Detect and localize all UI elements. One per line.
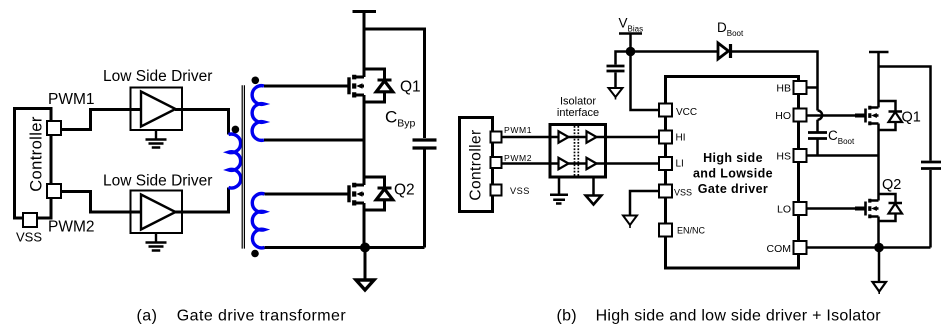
V_Bias rail bar: [619, 32, 642, 35]
svg-text:interface: interface: [557, 107, 599, 119]
wire HS to switch node: [807, 154, 879, 157]
svg-text:Q1: Q1: [902, 110, 921, 126]
junction dot (b): [874, 243, 884, 253]
svg-text:EN/NC: EN/NC: [677, 226, 706, 236]
svg-text:VSS: VSS: [16, 230, 42, 245]
svg-text:High side: High side: [703, 151, 763, 165]
wire secondary-bottom to Q2 gate: [265, 193, 348, 196]
ground driver 1 (earth): [146, 131, 167, 148]
output capacitor: [921, 162, 941, 169]
wire C_Boot to HS wire: [816, 140, 819, 156]
svg-text:PWM1: PWM1: [48, 91, 95, 108]
transformer T1 secondary top dot: [252, 77, 260, 85]
wire secondary-top bottom to switch node: [264, 139, 364, 142]
pin PWM2 (b): [491, 157, 502, 168]
svg-text:HI: HI: [676, 133, 686, 144]
low side driver 2 box: [131, 191, 183, 234]
wire isolator to HI: [607, 136, 660, 139]
svg-text:Isolator: Isolator: [560, 96, 596, 108]
svg-text:COM: COM: [767, 243, 792, 255]
transformer T1 primary winding: [229, 134, 241, 188]
capacitor C_Byp: [413, 140, 437, 248]
svg-text:Low Side Driver: Low Side Driver: [103, 173, 212, 190]
gate driver IC box: [666, 77, 799, 269]
pin EN/NC: [659, 224, 672, 237]
wire rail branch to output cap: [879, 67, 931, 161]
svg-text:Low Side Driver: Low Side Driver: [103, 68, 212, 85]
wire rail to Q1 drain (b): [877, 52, 880, 108]
wire Q2 source to COM node: [877, 217, 880, 248]
junction dot (a): [360, 243, 370, 253]
transformer T1 primary dot: [232, 126, 240, 134]
svg-text:HO: HO: [775, 110, 791, 122]
pin VSS (b): [491, 185, 502, 196]
wire HO to Q1 gate: [807, 114, 857, 117]
power rail bar (a): [353, 10, 377, 13]
junction dot V_Bias: [626, 47, 636, 57]
svg-text:PWM2: PWM2: [48, 219, 95, 236]
ground (a): [364, 248, 367, 281]
wire output cap to COM rail: [929, 170, 932, 248]
svg-text:Gate driver: Gate driver: [698, 182, 768, 196]
pin HO: [794, 109, 807, 122]
controller U_b box: [460, 118, 493, 212]
wire to bias cap: [616, 52, 631, 65]
ground (b): [878, 248, 881, 283]
low side driver 2 buffer triangle: [141, 195, 176, 230]
wire Q2 source to rail: [363, 203, 366, 248]
wire driver1 out to transformer primary top: [175, 110, 229, 135]
isolator ground right (arrow): [592, 177, 595, 195]
wire VSS (IC) to ground: [630, 191, 659, 215]
pin LO: [794, 202, 807, 215]
wire COM to node: [807, 246, 931, 249]
transistor Q1 (b): [866, 106, 879, 125]
wire LO to Q2 gate: [807, 207, 857, 210]
controller U_a box: [15, 109, 52, 219]
wire isolator to LI: [607, 162, 660, 165]
isolator ground left (earth): [550, 177, 568, 204]
svg-text:Controller: Controller: [28, 116, 46, 192]
pin VSS (IC): [659, 185, 672, 198]
isolator buffer triangles row 1: [550, 136, 607, 139]
svg-text:PWM1: PWM1: [504, 125, 532, 135]
wire V_Bias to VCC: [631, 52, 660, 111]
low side driver 1 box: [131, 88, 183, 131]
wire Q1 source to switch node (b): [877, 124, 880, 201]
svg-text:LI: LI: [676, 159, 684, 170]
wire HB pin: [807, 86, 818, 89]
svg-text:(a) Gate drive transformer: (a) Gate drive transformer: [137, 308, 347, 325]
transistor Q1 (a): [349, 75, 364, 98]
ground bias cap (arrow): [609, 88, 623, 97]
svg-text:Controller: Controller: [468, 129, 485, 200]
capacitor bias: [607, 66, 625, 71]
svg-text:and Lowside: and Lowside: [693, 167, 773, 181]
wire cap to ground: [614, 73, 617, 88]
svg-text:Q2: Q2: [882, 177, 901, 193]
Q1 (b) body diode: [879, 101, 903, 130]
transformer T1 secondary bottom dot: [251, 250, 259, 258]
pin HS: [794, 149, 807, 162]
wire D_Boot to HB corner: [731, 52, 818, 111]
pin PWM1: [47, 121, 61, 135]
svg-text:HS: HS: [776, 151, 791, 163]
hop of C_Boot wire over HO wire: [818, 111, 823, 120]
svg-text:VSS: VSS: [510, 186, 530, 196]
wire PWM2 to isolator: [502, 162, 551, 165]
Q2 gate lead stub: [855, 207, 865, 211]
svg-text:VSS: VSS: [674, 188, 692, 198]
transformer T1 core: [242, 85, 244, 248]
wire V_Bias down: [629, 34, 632, 52]
power rail bar (b): [869, 51, 889, 54]
pin PWM2: [47, 184, 61, 198]
wire PWM1 to driver: [58, 110, 141, 130]
wire rail branch to C_Byp: [364, 29, 425, 138]
transformer T1 secondary bottom winding: [252, 194, 264, 248]
pin HI: [659, 131, 672, 144]
transistor Q2 (b): [866, 199, 879, 218]
svg-text:LO: LO: [777, 204, 791, 216]
wire node to Q2 drain: [363, 140, 366, 185]
Q1 gate lead stub: [855, 114, 865, 118]
svg-text:Q1: Q1: [400, 79, 421, 96]
wire secondary-top to Q1 gate: [264, 85, 348, 88]
pin COM: [794, 241, 807, 254]
transformer T1 secondary top winding: [252, 86, 264, 141]
diode D_Boot: [718, 43, 729, 59]
wire Q1 source to node: [363, 95, 366, 140]
bottom rail (a): [265, 246, 425, 249]
pin HB: [794, 81, 807, 94]
Q2 (a) body diode: [364, 177, 393, 210]
capacitor C_Boot: [808, 133, 827, 139]
Q1 (a) body diode: [364, 69, 393, 102]
ground VSS (arrow): [623, 216, 637, 226]
svg-text:(b) High side and low side: (b) High side and low side driver + Isol…: [557, 308, 882, 325]
wire PWM2 to driver: [58, 192, 141, 213]
wire V_Bias to D_Boot: [631, 50, 718, 53]
wire PWM1 to isolator: [502, 136, 551, 139]
low side driver 1 buffer triangle: [141, 92, 176, 127]
isolator buffer triangles row 2: [550, 162, 607, 165]
pin LI: [659, 157, 672, 170]
wire transformer primary bottom to driver2 out: [175, 188, 229, 213]
isolator interface box: [550, 125, 606, 178]
isolation barrier dashed lines: [575, 126, 579, 176]
svg-text:Q2: Q2: [394, 182, 415, 199]
pin VCC: [659, 104, 672, 117]
wire hop to C_Boot: [816, 120, 819, 132]
wire rail to Q1 drain: [363, 12, 366, 78]
svg-text:VCC: VCC: [676, 107, 697, 118]
Q2 (b) body diode: [879, 194, 903, 221]
transistor Q2 (a): [349, 183, 364, 206]
pin PWM1 (b): [491, 132, 502, 143]
svg-text:HB: HB: [776, 83, 791, 95]
svg-text:PWM2: PWM2: [504, 153, 532, 163]
pin VSS: [23, 213, 37, 227]
ground driver 2 (earth): [146, 234, 167, 251]
